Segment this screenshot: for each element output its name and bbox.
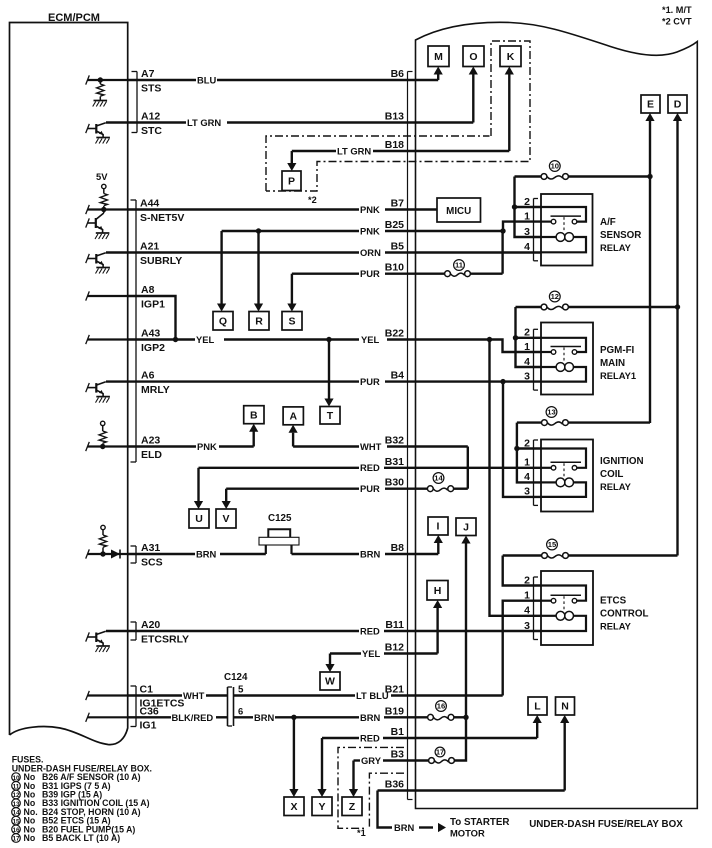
- svg-text:E: E: [647, 99, 654, 111]
- svg-text:Y: Y: [318, 801, 325, 813]
- transistor Q-A6: [95, 383, 97, 393]
- 5V terminal circle: [102, 184, 106, 188]
- svg-text:U: U: [195, 513, 203, 525]
- wire B21 to ETCS pin 1: [503, 601, 541, 696]
- svg-text:A12: A12: [141, 111, 160, 123]
- svg-text:IG1: IG1: [140, 720, 157, 732]
- svg-text:ETCS: ETCS: [600, 596, 627, 607]
- node A7 internal stub: [88, 79, 128, 81]
- svg-text:M: M: [434, 51, 443, 63]
- connector T: [320, 407, 340, 425]
- svg-text:O: O: [469, 51, 477, 63]
- wire A to B32 WHT: [292, 433, 294, 447]
- connector Z: [342, 797, 362, 816]
- svg-text:2: 2: [524, 196, 530, 208]
- junction dot T: [326, 337, 331, 342]
- svg-text:No: No: [24, 833, 36, 843]
- svg-text:STS: STS: [141, 83, 161, 95]
- wire to R: [257, 231, 259, 306]
- fuse-box connector rail: [407, 72, 409, 800]
- connector Y: [312, 797, 332, 816]
- resistor R-A7: [99, 80, 101, 84]
- wire B31 to U: [197, 468, 199, 504]
- wire fuse12: [516, 306, 542, 308]
- wire rail D: [676, 119, 678, 556]
- fuse label 15: [547, 539, 558, 550]
- svg-text:A6: A6: [141, 370, 155, 382]
- svg-text:IGP2: IGP2: [141, 342, 165, 354]
- svg-text:15: 15: [12, 818, 20, 825]
- connector K: [500, 46, 521, 67]
- svg-text:*1. M/T: *1. M/T: [662, 5, 692, 15]
- svg-text:1: 1: [524, 457, 530, 469]
- wire YEL down to ETCS pin 4: [490, 340, 542, 616]
- fuse 16: [428, 714, 434, 720]
- svg-text:17: 17: [436, 748, 444, 757]
- connector D: [668, 95, 687, 113]
- svg-text:ORN: ORN: [360, 247, 381, 258]
- wire fuse10 to A/F pins 2,3: [515, 177, 542, 238]
- wire B12 to H: [436, 606, 438, 654]
- svg-text:10: 10: [12, 775, 20, 782]
- connector Q: [213, 312, 233, 331]
- svg-text:LT GRN: LT GRN: [337, 146, 371, 157]
- svg-text:MAIN: MAIN: [600, 358, 625, 369]
- bracket pins A44-A23: [135, 200, 137, 462]
- svg-text:STC: STC: [141, 125, 162, 137]
- wire A20-B11 RED to ETCS pin 3: [106, 630, 359, 632]
- fuse label 12: [549, 291, 560, 302]
- svg-text:BLU: BLU: [197, 75, 216, 86]
- svg-text:UNDER-DASH FUSE/RELAY BOX: UNDER-DASH FUSE/RELAY BOX: [529, 819, 683, 830]
- fuse label 10: [549, 161, 560, 172]
- connector U: [189, 509, 209, 528]
- svg-text:PNK: PNK: [197, 441, 217, 452]
- wire B1 RED: [322, 737, 359, 739]
- wire to P: [291, 151, 293, 165]
- svg-text:C1: C1: [140, 684, 154, 696]
- transistor Q-A12: [95, 124, 97, 134]
- resistor R-A23: [102, 426, 104, 431]
- svg-text:ECM/PCM: ECM/PCM: [48, 12, 100, 24]
- A23 terminal circle: [101, 421, 105, 425]
- junction dot YEL feed: [487, 337, 492, 342]
- svg-text:V: V: [222, 513, 229, 525]
- wire B12 YEL: [330, 652, 361, 654]
- wire fuse12 to PGM pins 2,4: [516, 307, 542, 367]
- svg-text:RELAY: RELAY: [600, 481, 632, 492]
- connector P: [282, 171, 301, 191]
- svg-text:1: 1: [524, 341, 530, 353]
- wire A/F pin2: [515, 206, 542, 208]
- wire fuse15 to ETCS pin 2: [503, 556, 541, 586]
- svg-text:ELD: ELD: [141, 449, 162, 461]
- svg-text:S-NET5V: S-NET5V: [140, 212, 184, 224]
- connector E: [641, 95, 660, 113]
- connector W: [320, 672, 340, 690]
- svg-text:PGM-FI: PGM-FI: [600, 345, 635, 356]
- wire B36 to N: [564, 721, 566, 791]
- svg-text:5V: 5V: [96, 171, 108, 182]
- wire B30 PUR: [226, 488, 359, 490]
- svg-text:14: 14: [434, 474, 443, 483]
- svg-text:RELAY: RELAY: [600, 242, 632, 253]
- svg-text:B22: B22: [385, 328, 404, 340]
- svg-text:LT BLU: LT BLU: [356, 690, 389, 701]
- wire fuse13: [517, 421, 542, 423]
- fuse label 16: [436, 701, 447, 712]
- svg-text:WHT: WHT: [183, 690, 205, 701]
- transistor Q-A44: [103, 210, 105, 214]
- *1 M/T dash-dot region (Z): [338, 747, 404, 828]
- svg-text:MOTOR: MOTOR: [450, 828, 485, 839]
- fuse label 14: [433, 473, 444, 484]
- svg-text:B13: B13: [385, 111, 404, 123]
- transistor Q-A20: [95, 633, 97, 643]
- svg-text:P: P: [288, 175, 295, 187]
- wire B8 to I: [437, 541, 439, 555]
- A31 terminal circle: [101, 525, 105, 529]
- bracket pins A7-A12: [136, 72, 138, 133]
- transistor Q-A21: [95, 254, 97, 264]
- wire to K: [508, 73, 510, 151]
- wire junction to J: [465, 541, 467, 717]
- wire PGM pin2: [516, 337, 542, 339]
- ECM/PCM box outline: [10, 23, 128, 745]
- junction dot X: [291, 715, 296, 720]
- svg-text:B6: B6: [391, 68, 405, 80]
- svg-text:4: 4: [524, 605, 530, 617]
- svg-text:3: 3: [524, 486, 530, 498]
- wire IGN pin2: [517, 447, 541, 449]
- fuse 10: [541, 174, 547, 180]
- wire B25 to A/F relay pin 1: [503, 222, 541, 231]
- connector S: [282, 312, 302, 331]
- svg-text:BRN: BRN: [360, 712, 381, 723]
- svg-text:H: H: [434, 585, 442, 597]
- svg-text:2: 2: [524, 574, 530, 586]
- svg-text:3: 3: [524, 370, 530, 382]
- svg-text:SCS: SCS: [141, 557, 163, 569]
- svg-text:J: J: [463, 521, 469, 533]
- svg-text:B32: B32: [385, 435, 404, 447]
- svg-text:12: 12: [551, 292, 559, 301]
- svg-text:*2 CVT: *2 CVT: [662, 17, 692, 27]
- connector R: [249, 312, 269, 331]
- relay A/F SENSOR: [541, 194, 593, 266]
- svg-text:B5: B5: [391, 241, 405, 253]
- connector V: [216, 509, 236, 528]
- wire B1 to Y: [321, 738, 323, 792]
- svg-text:*1: *1: [357, 828, 366, 838]
- connector H: [427, 581, 448, 601]
- svg-text:B5 BACK LT (10 A): B5 BACK LT (10 A): [42, 833, 120, 843]
- junction dot A31: [100, 551, 105, 556]
- node A23 stub: [88, 445, 128, 447]
- svg-text:S: S: [288, 315, 295, 327]
- svg-text:IGP1: IGP1: [141, 299, 165, 311]
- svg-text:CONTROL: CONTROL: [600, 609, 648, 620]
- svg-text:YEL: YEL: [362, 648, 381, 659]
- svg-text:MICU: MICU: [446, 206, 471, 217]
- fuse label 13: [546, 407, 557, 418]
- svg-text:A23: A23: [141, 435, 160, 447]
- wire A43-B22 YEL: [128, 338, 195, 340]
- svg-text:YEL: YEL: [196, 334, 215, 345]
- connector A: [283, 407, 303, 425]
- wire A44-B7 PNK: [128, 208, 359, 210]
- connector M: [428, 46, 449, 67]
- wire B1 to L: [536, 721, 538, 739]
- svg-text:L: L: [534, 701, 541, 713]
- relay PGM-FI MAIN RELAY1: [541, 323, 593, 395]
- svg-text:B: B: [250, 409, 258, 421]
- svg-text:To STARTER: To STARTER: [450, 817, 510, 828]
- wire A7-B6 BLU: [128, 79, 196, 81]
- svg-text:4: 4: [524, 241, 530, 253]
- junction dot A44: [101, 207, 106, 212]
- wire to Q: [220, 231, 222, 306]
- wire A23 PNK to B: [128, 445, 196, 447]
- svg-text:17: 17: [12, 836, 20, 843]
- svg-text:RED: RED: [360, 626, 380, 637]
- svg-text:4: 4: [524, 471, 530, 483]
- svg-text:2: 2: [524, 437, 530, 449]
- junction dot IGN pin2: [514, 446, 519, 451]
- svg-text:B4: B4: [391, 370, 405, 382]
- svg-text:6: 6: [238, 705, 243, 716]
- junction dot fuse10/E: [647, 174, 652, 179]
- connector X: [284, 797, 304, 816]
- svg-text:13: 13: [547, 408, 555, 417]
- svg-text:PUR: PUR: [360, 483, 380, 494]
- node A44 stub: [88, 208, 128, 210]
- svg-text:14: 14: [12, 810, 20, 817]
- wire fuse16 to junction: [454, 716, 466, 718]
- svg-text:B11: B11: [385, 619, 404, 631]
- wire B12 to W: [329, 654, 331, 667]
- svg-text:16: 16: [437, 702, 445, 711]
- relay ETCS CONTROL: [541, 571, 593, 645]
- wire B32 down to fuse 14: [467, 447, 469, 489]
- wire fuse15: [503, 554, 542, 556]
- svg-text:A8: A8: [141, 284, 155, 296]
- fuse 17: [429, 758, 435, 764]
- fuse 13: [542, 420, 548, 426]
- wire A21-B5 ORN to A/F relay pin 4: [106, 251, 359, 253]
- fuse label 11: [454, 260, 465, 271]
- wire B30 to V: [225, 489, 227, 504]
- svg-text:B18: B18: [385, 139, 404, 151]
- resistor R-A44: [103, 189, 105, 194]
- wire YEL to PGM-FI pin 1: [490, 340, 542, 353]
- svg-text:4: 4: [524, 356, 530, 368]
- relay IGNITION COIL: [541, 440, 593, 512]
- MICU box: [437, 198, 481, 222]
- svg-text:SENSOR: SENSOR: [600, 230, 641, 241]
- svg-text:5: 5: [238, 685, 244, 696]
- svg-text:11: 11: [13, 784, 20, 791]
- junction dot R: [256, 228, 261, 233]
- diode D-A31: [88, 553, 128, 555]
- junction dot fuse16/17: [463, 715, 468, 720]
- connector L: [528, 697, 547, 715]
- fuse label 17: [435, 747, 445, 757]
- svg-text:A20: A20: [141, 619, 160, 631]
- connector N: [556, 697, 575, 715]
- svg-text:IGNITION: IGNITION: [600, 456, 644, 467]
- junction dot B25/B10: [500, 228, 505, 233]
- svg-text:C36: C36: [140, 705, 159, 717]
- junction dot PGM pin2: [513, 335, 518, 340]
- wire B3 GRY: [354, 759, 361, 761]
- connector I: [428, 517, 448, 535]
- svg-text:11: 11: [455, 261, 464, 270]
- node A8 stub: [88, 295, 128, 297]
- wire fuse13 to IGN pins 2,4: [517, 423, 541, 483]
- junction dot A8/A43: [173, 337, 178, 342]
- svg-text:X: X: [290, 801, 297, 813]
- svg-text:A21: A21: [140, 241, 159, 253]
- wire C1 WHT - LT BLU B21: [128, 694, 182, 696]
- wire B36 to starter: [378, 791, 393, 828]
- svg-text:K: K: [507, 51, 515, 63]
- fuse 12: [541, 304, 547, 310]
- wire to M: [437, 73, 439, 80]
- svg-text:*2: *2: [308, 195, 317, 205]
- connector O: [463, 46, 484, 67]
- svg-text:PNK: PNK: [360, 204, 380, 215]
- svg-text:BRN: BRN: [254, 712, 275, 723]
- wire A8 to A43 junction: [128, 296, 176, 340]
- svg-text:A44: A44: [140, 198, 159, 210]
- svg-text:B1: B1: [391, 726, 405, 738]
- wire B31 RED to IGN COIL pin 1: [199, 467, 360, 469]
- svg-text:YEL: YEL: [361, 334, 380, 345]
- svg-text:N: N: [561, 701, 569, 713]
- svg-text:1: 1: [524, 590, 530, 602]
- svg-text:MRLY: MRLY: [141, 384, 170, 396]
- svg-text:RED: RED: [360, 733, 380, 744]
- wire fuse11 to B25 node: [470, 273, 502, 275]
- fuse 11: [445, 271, 451, 277]
- svg-text:SUBRLY: SUBRLY: [140, 255, 182, 267]
- svg-text:T: T: [327, 410, 334, 422]
- svg-text:PNK: PNK: [360, 226, 380, 237]
- svg-text:BRN: BRN: [360, 549, 381, 560]
- svg-text:10: 10: [551, 162, 559, 171]
- svg-text:3: 3: [524, 226, 530, 238]
- wire B36: [378, 789, 565, 791]
- resistor R-A31: [102, 530, 104, 535]
- svg-text:PUR: PUR: [360, 376, 380, 387]
- svg-text:B19: B19: [385, 705, 404, 717]
- fuse 15: [542, 553, 548, 559]
- wire A12-B13 LT GRN: [106, 121, 186, 123]
- svg-text:A/F: A/F: [600, 217, 616, 228]
- svg-text:B30: B30: [385, 477, 404, 489]
- junction dot fuse12/D: [675, 304, 680, 309]
- svg-text:Z: Z: [349, 801, 356, 813]
- fuse 14: [427, 486, 433, 492]
- wire A31-B8 BRN: [128, 553, 195, 555]
- wire to X: [293, 717, 295, 791]
- connector J: [456, 518, 476, 536]
- svg-text:3: 3: [524, 620, 530, 632]
- svg-text:RELAY1: RELAY1: [600, 370, 636, 381]
- bracket pins C1-C36: [135, 686, 137, 727]
- bracket pin A20: [135, 622, 137, 640]
- svg-text:B31: B31: [385, 456, 404, 468]
- svg-text:A7: A7: [141, 68, 155, 80]
- svg-text:BLK/RED: BLK/RED: [172, 712, 214, 723]
- svg-text:PUR: PUR: [360, 268, 380, 279]
- svg-text:RED: RED: [360, 462, 380, 473]
- wire to T: [328, 340, 330, 402]
- junction dot A7: [98, 77, 103, 82]
- wire rail E: [649, 119, 651, 424]
- svg-text:LT GRN: LT GRN: [187, 117, 221, 128]
- wire fuse14 to B32 corner: [454, 488, 468, 490]
- wire B25 PNK: [222, 230, 359, 232]
- wire to S: [291, 274, 293, 306]
- connector B: [244, 406, 264, 424]
- wire fuse17 to junction: [454, 719, 466, 761]
- ground A7: [94, 100, 108, 102]
- wire to O: [472, 73, 474, 123]
- svg-text:RELAY: RELAY: [600, 621, 632, 632]
- svg-text:B36: B36: [385, 779, 404, 791]
- svg-text:A31: A31: [141, 542, 160, 554]
- svg-text:D: D: [674, 99, 682, 111]
- wire B4 down to IGN COIL pin 3: [503, 382, 541, 497]
- svg-text:I: I: [437, 521, 440, 533]
- svg-text:BRN: BRN: [196, 549, 217, 560]
- svg-text:C125: C125: [268, 513, 292, 524]
- node C36 stub: [88, 716, 128, 718]
- svg-text:ETCSRLY: ETCSRLY: [141, 634, 189, 646]
- node A43 stub: [88, 338, 128, 340]
- svg-text:2: 2: [524, 327, 530, 339]
- wire C36 BLK/RED - BRN B19: [128, 716, 171, 718]
- svg-text:COIL: COIL: [600, 469, 623, 480]
- *2 CVT dash-dot region (P, K): [266, 136, 490, 191]
- wire fuse10: [515, 175, 542, 177]
- svg-text:B25: B25: [385, 219, 404, 231]
- svg-text:1: 1: [524, 210, 530, 222]
- svg-text:A: A: [289, 411, 297, 423]
- svg-text:B7: B7: [391, 198, 405, 210]
- svg-text:WHT: WHT: [360, 441, 382, 452]
- svg-text:12: 12: [12, 792, 20, 799]
- node C1 stub: [88, 694, 128, 696]
- svg-text:C124: C124: [224, 672, 248, 683]
- svg-text:13: 13: [12, 801, 20, 808]
- svg-text:Q: Q: [219, 315, 227, 327]
- wire B10 PUR: [292, 273, 359, 275]
- svg-text:GRY: GRY: [361, 755, 382, 766]
- bracket pin A31: [135, 546, 137, 563]
- svg-text:B10: B10: [385, 262, 404, 274]
- svg-text:B8: B8: [391, 542, 405, 554]
- wire A6-B4 PUR to PGM-FI pin 3: [106, 380, 359, 382]
- svg-text:B12: B12: [385, 642, 404, 654]
- svg-text:A43: A43: [141, 328, 160, 340]
- UNDER-DASH FUSE/RELAY BOX outline: [416, 22, 698, 808]
- svg-text:15: 15: [548, 540, 557, 549]
- wire B18 LT GRN: [292, 150, 336, 152]
- svg-text:B3: B3: [391, 749, 405, 761]
